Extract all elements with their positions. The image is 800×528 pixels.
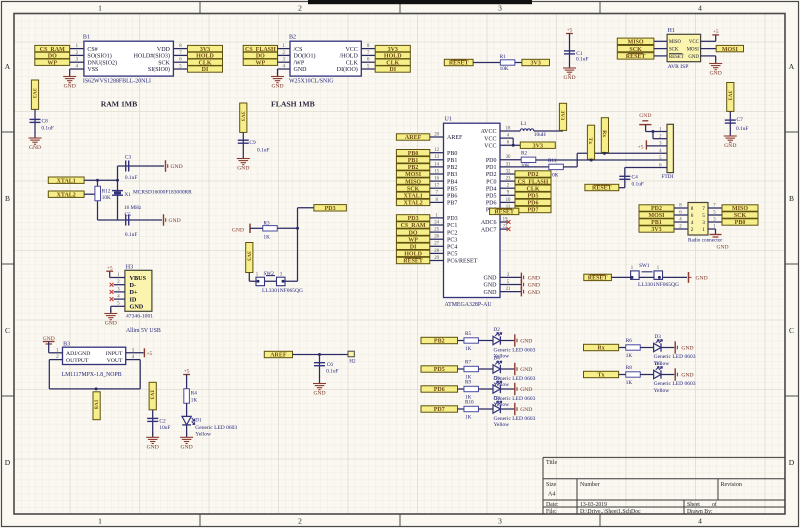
svg-text:VCC: VCC	[689, 40, 699, 45]
svg-text:6: 6	[691, 213, 694, 219]
svg-text:ADJ/GND: ADJ/GND	[66, 351, 90, 357]
svg-text:RESET: RESET	[588, 276, 608, 282]
svg-text:D:\Drive..\Sheet1.SchDoc: D:\Drive..\Sheet1.SchDoc	[580, 509, 641, 515]
svg-text:16: 16	[434, 177, 439, 182]
svg-text:10: 10	[506, 198, 511, 203]
svg-text:C: C	[5, 326, 10, 335]
svg-text:1: 1	[702, 227, 705, 233]
svg-text:27: 27	[434, 242, 439, 247]
svg-text:2: 2	[691, 227, 694, 233]
svg-text:R10: R10	[465, 399, 474, 405]
svg-text:SCK: SCK	[158, 60, 170, 66]
svg-text:Generic LED 0603: Generic LED 0603	[494, 347, 536, 353]
svg-text:VSS: VSS	[87, 67, 98, 73]
svg-text:Date:: Date:	[546, 502, 559, 508]
svg-text:A: A	[5, 62, 11, 71]
svg-text:C: C	[789, 326, 794, 335]
svg-text:VBUS: VBUS	[130, 275, 147, 282]
svg-text:SI(SIO0): SI(SIO0)	[148, 66, 170, 73]
svg-text:Radio connector: Radio connector	[688, 238, 722, 244]
svg-text:ATMEGA328P-AU: ATMEGA328P-AU	[445, 302, 493, 308]
svg-text:+5: +5	[713, 29, 719, 35]
svg-text:RESET: RESET	[626, 54, 646, 60]
svg-text:1K: 1K	[626, 353, 633, 359]
svg-text:D: D	[789, 458, 795, 467]
svg-text:Number: Number	[580, 482, 600, 488]
svg-text:SW1: SW1	[639, 263, 650, 269]
svg-text:IS62WVS1288FBLL-20NLI: IS62WVS1288FBLL-20NLI	[83, 79, 151, 85]
svg-text:+5: +5	[567, 28, 573, 34]
svg-text:PD3: PD3	[408, 216, 419, 222]
svg-text:MCRSD16000F183000RR: MCRSD16000F183000RR	[133, 190, 192, 196]
svg-text:PC0: PC0	[486, 179, 496, 185]
svg-text:1K: 1K	[626, 380, 633, 386]
svg-text:20: 20	[434, 132, 439, 137]
svg-text:OUTPUT: OUTPUT	[66, 358, 89, 364]
svg-text:GND: GND	[724, 143, 736, 149]
svg-text:GND: GND	[528, 276, 540, 282]
svg-text:DI: DI	[202, 67, 209, 73]
svg-text:10K: 10K	[500, 66, 509, 72]
svg-text:SCK: SCK	[669, 48, 679, 53]
svg-text:GND: GND	[688, 55, 699, 60]
svg-text:VDD: VDD	[157, 47, 171, 53]
svg-text:R3: R3	[264, 221, 270, 227]
svg-text:GND: GND	[520, 367, 532, 373]
svg-text:SCK: SCK	[629, 47, 642, 53]
svg-text:DI: DI	[410, 245, 417, 251]
svg-text:R12: R12	[102, 189, 111, 195]
svg-text:R5: R5	[465, 331, 471, 337]
svg-text:PD2: PD2	[486, 172, 497, 178]
svg-text:12: 12	[434, 148, 439, 153]
svg-text:X1: X1	[125, 192, 132, 198]
svg-text:7: 7	[702, 206, 705, 212]
svg-text:RAM 1MB: RAM 1MB	[101, 99, 138, 108]
svg-text:INPUT: INPUT	[106, 351, 123, 357]
svg-text:Generic LED 0603: Generic LED 0603	[654, 381, 696, 387]
svg-text:PB3: PB3	[447, 172, 457, 178]
svg-text:MOSI: MOSI	[687, 48, 699, 53]
svg-text:PD4: PD4	[486, 186, 497, 192]
svg-text:CLK: CLK	[346, 60, 359, 66]
svg-text:10K: 10K	[521, 163, 530, 169]
svg-text:Size: Size	[546, 482, 557, 488]
svg-text:Tx: Tx	[598, 373, 605, 379]
svg-text:/HOLD: /HOLD	[339, 54, 358, 60]
svg-text:3V3: 3V3	[245, 251, 251, 261]
svg-text:R1: R1	[500, 54, 506, 60]
svg-text:H3: H3	[126, 264, 133, 270]
svg-text:B3: B3	[63, 342, 70, 348]
svg-text:GND: GND	[147, 445, 159, 451]
svg-text:C3: C3	[125, 155, 132, 161]
svg-text:PB4: PB4	[447, 179, 457, 185]
svg-text:PC6/RESET: PC6/RESET	[447, 259, 478, 265]
svg-text:+5: +5	[147, 351, 153, 357]
svg-text:XTAL1: XTAL1	[57, 178, 76, 184]
svg-text:R6: R6	[626, 338, 632, 344]
svg-text:GND: GND	[232, 228, 244, 234]
svg-text:8: 8	[691, 206, 694, 212]
svg-text:DI(IOO): DI(IOO)	[337, 66, 358, 73]
svg-text:GND: GND	[237, 166, 249, 172]
svg-text:1V8: 1V8	[93, 399, 99, 409]
svg-text:LM1117MPX-1.8_NOPB: LM1117MPX-1.8_NOPB	[62, 372, 122, 378]
svg-text:0.1uF: 0.1uF	[41, 125, 53, 131]
svg-text:15: 15	[434, 169, 439, 174]
svg-text:Generic LED 0603: Generic LED 0603	[195, 425, 237, 431]
svg-text:PD6: PD6	[486, 201, 497, 207]
svg-text:XTAL1: XTAL1	[403, 194, 422, 200]
svg-text:AVCC: AVCC	[481, 129, 497, 135]
svg-text:Yellow: Yellow	[195, 432, 211, 438]
svg-text:1: 1	[98, 517, 102, 526]
svg-text:PB2: PB2	[408, 165, 419, 171]
svg-text:0.1uF: 0.1uF	[257, 148, 269, 154]
svg-text:+5: +5	[184, 369, 190, 375]
svg-text:3V3: 3V3	[533, 143, 543, 149]
svg-text:PB1: PB1	[447, 158, 457, 164]
svg-text:AREF: AREF	[270, 353, 287, 359]
svg-text:MOSI: MOSI	[405, 172, 422, 178]
svg-text:Tx: Tx	[587, 137, 593, 144]
svg-text:PD2: PD2	[528, 172, 539, 178]
svg-text:3V3: 3V3	[239, 111, 245, 121]
svg-text:LL3301NF065QG: LL3301NF065QG	[638, 282, 679, 288]
svg-text:13: 13	[434, 155, 439, 160]
svg-text:DO: DO	[409, 230, 418, 236]
svg-text:D: D	[5, 458, 11, 467]
svg-text:RESET: RESET	[449, 61, 469, 67]
svg-text:PC3: PC3	[447, 237, 457, 243]
svg-text:HOLD#(SIO3): HOLD#(SIO3)	[134, 53, 170, 60]
svg-text:0.1uF: 0.1uF	[125, 175, 137, 181]
svg-text:/WP: /WP	[294, 60, 305, 66]
svg-text:GND: GND	[105, 321, 117, 327]
svg-text:SW2: SW2	[264, 271, 275, 277]
svg-text:Yellow: Yellow	[494, 422, 510, 428]
svg-text:GND: GND	[520, 387, 532, 393]
svg-text:Rx: Rx	[601, 130, 607, 137]
svg-text:18: 18	[506, 126, 511, 131]
svg-text:GND: GND	[484, 290, 498, 296]
svg-text:5: 5	[702, 213, 705, 219]
svg-text:VCC: VCC	[484, 143, 496, 149]
svg-text:PB6: PB6	[447, 194, 457, 200]
svg-text:HOLD: HOLD	[404, 252, 422, 258]
svg-text:CS_FLASH: CS_FLASH	[518, 179, 549, 185]
svg-text:2: 2	[298, 4, 302, 13]
svg-text:D6: D6	[494, 376, 501, 382]
svg-text:Title: Title	[546, 460, 557, 466]
svg-text:24: 24	[434, 220, 439, 225]
svg-text:WP: WP	[408, 237, 418, 243]
svg-text:3V3: 3V3	[31, 88, 37, 98]
svg-text:PD6: PD6	[434, 387, 445, 393]
svg-text:PB5: PB5	[447, 186, 457, 192]
svg-text:GND: GND	[313, 391, 325, 397]
svg-text:GND: GND	[710, 71, 722, 77]
svg-text:GND: GND	[520, 339, 532, 345]
svg-text:1: 1	[98, 4, 102, 13]
svg-text:C5: C5	[125, 212, 132, 218]
svg-text:RESET: RESET	[592, 186, 612, 192]
svg-text:B2: B2	[289, 35, 296, 41]
svg-text:MISO: MISO	[405, 179, 421, 185]
svg-text:Yellow: Yellow	[654, 388, 670, 394]
svg-text:D3: D3	[655, 334, 662, 340]
svg-text:GND: GND	[696, 276, 708, 282]
svg-text:GND: GND	[563, 75, 575, 81]
svg-text:PD5: PD5	[528, 194, 539, 200]
svg-text:C7: C7	[737, 117, 744, 123]
svg-text:U1: U1	[445, 117, 452, 123]
svg-text:CS#: CS#	[87, 47, 97, 53]
svg-text:PD7: PD7	[528, 208, 539, 214]
svg-text:B1: B1	[83, 35, 90, 41]
svg-text:XTAL2: XTAL2	[403, 201, 422, 207]
svg-text:D2: D2	[494, 327, 501, 333]
svg-text:D+: D+	[130, 289, 138, 296]
svg-text:GND: GND	[681, 346, 693, 352]
svg-text:R8: R8	[626, 365, 632, 371]
svg-text:D-: D-	[130, 282, 137, 289]
svg-text:PD5: PD5	[434, 367, 445, 373]
svg-text:GND: GND	[169, 218, 181, 224]
svg-text:WP: WP	[256, 60, 266, 66]
svg-text:XTAL2: XTAL2	[57, 192, 76, 198]
svg-text:25: 25	[434, 228, 439, 233]
svg-text:10uH: 10uH	[534, 132, 546, 138]
svg-text:ADC6: ADC6	[481, 220, 497, 226]
svg-text:AREF: AREF	[405, 135, 422, 141]
svg-text:1K: 1K	[191, 397, 198, 403]
svg-text:PC4: PC4	[447, 245, 457, 251]
svg-text:C4: C4	[632, 175, 639, 181]
svg-text:13-03-2019: 13-03-2019	[580, 502, 607, 508]
svg-text:4: 4	[698, 4, 702, 13]
svg-text:A4: A4	[548, 492, 555, 498]
svg-text:1K: 1K	[465, 414, 472, 420]
svg-text:MISO: MISO	[669, 40, 682, 45]
svg-text:FLASH 1MB: FLASH 1MB	[271, 100, 315, 109]
svg-text:C8: C8	[42, 119, 49, 125]
svg-text:Generic LED 0603: Generic LED 0603	[654, 354, 696, 360]
svg-text:GND: GND	[294, 67, 308, 73]
svg-text:VOUT: VOUT	[107, 358, 123, 364]
svg-text:B: B	[5, 194, 10, 203]
svg-text:0.1uF: 0.1uF	[576, 57, 588, 63]
svg-text:Sheet: Sheet	[687, 502, 700, 508]
svg-text:Allim 5V USB: Allim 5V USB	[126, 328, 161, 334]
svg-text:GND: GND	[171, 164, 183, 170]
svg-text:23: 23	[506, 177, 511, 182]
svg-text:16 MHz: 16 MHz	[124, 205, 142, 211]
svg-text:22: 22	[503, 225, 508, 230]
svg-text:PD1: PD1	[486, 165, 497, 171]
svg-text:W25X10CL/SNIG: W25X10CL/SNIG	[289, 79, 334, 85]
svg-text:PD0: PD0	[486, 158, 497, 164]
svg-text:28: 28	[434, 249, 439, 254]
svg-text:B: B	[789, 194, 794, 203]
svg-text:29: 29	[434, 256, 439, 261]
svg-text:3: 3	[498, 4, 502, 13]
svg-text:Generic LED 0603: Generic LED 0603	[494, 416, 536, 422]
svg-text:Rx: Rx	[597, 346, 604, 352]
svg-text:PB1: PB1	[408, 158, 419, 164]
svg-text:PB2: PB2	[447, 165, 457, 171]
svg-text:PC2: PC2	[447, 230, 457, 236]
svg-text:D4: D4	[494, 356, 501, 362]
svg-text:Drawn By:: Drawn By:	[687, 509, 713, 515]
svg-text:C6: C6	[327, 362, 334, 368]
svg-text:0.1uF: 0.1uF	[326, 369, 338, 375]
svg-text:4: 4	[698, 517, 702, 526]
svg-text:1K: 1K	[465, 346, 472, 352]
svg-text:R9: R9	[465, 379, 471, 385]
svg-text:WP: WP	[47, 60, 57, 66]
svg-text:C2: C2	[159, 418, 166, 424]
svg-text:0.1uF: 0.1uF	[736, 126, 748, 132]
svg-text:GND: GND	[64, 84, 76, 90]
svg-text:AVR ISP: AVR ISP	[668, 64, 689, 70]
svg-text:26: 26	[434, 235, 439, 240]
svg-text:47346-1001: 47346-1001	[126, 313, 153, 319]
svg-text:GND: GND	[271, 84, 283, 90]
svg-text:LL3301NF065QG: LL3301NF065QG	[262, 288, 303, 294]
svg-text:3: 3	[498, 517, 502, 526]
svg-text:PB0: PB0	[447, 151, 457, 157]
svg-text:R4: R4	[191, 390, 197, 396]
svg-text:GND: GND	[181, 445, 193, 451]
svg-text:A: A	[789, 62, 795, 71]
svg-text:MOSI: MOSI	[722, 47, 739, 53]
svg-text:PD5: PD5	[486, 194, 497, 200]
svg-text:PB0: PB0	[408, 151, 419, 157]
svg-text:PD7: PD7	[434, 407, 445, 413]
svg-text:30: 30	[506, 155, 511, 160]
svg-text:3V3: 3V3	[726, 91, 732, 101]
svg-text:MISO: MISO	[628, 40, 644, 46]
svg-text:PB7: PB7	[447, 201, 457, 207]
svg-text:SO(SIO1): SO(SIO1)	[87, 53, 111, 60]
svg-text:2: 2	[298, 517, 302, 526]
svg-text:R7: R7	[465, 359, 471, 365]
svg-text:PD3: PD3	[325, 206, 336, 212]
svg-text:D5: D5	[655, 361, 662, 367]
svg-text:31: 31	[506, 162, 511, 167]
svg-text:DO(IO1): DO(IO1)	[294, 53, 316, 60]
svg-text:10K: 10K	[102, 195, 111, 201]
svg-text:L1: L1	[521, 121, 527, 127]
svg-text:0.1uF: 0.1uF	[125, 232, 137, 238]
svg-text:3V3: 3V3	[651, 227, 661, 233]
svg-text:3V3: 3V3	[531, 61, 541, 67]
svg-text:ADC7: ADC7	[481, 227, 497, 233]
svg-text:File:: File:	[546, 509, 557, 515]
svg-text:GND: GND	[130, 304, 144, 311]
svg-text:17: 17	[434, 184, 439, 189]
svg-text:PD6: PD6	[528, 201, 539, 207]
svg-text:CLK: CLK	[526, 186, 539, 192]
svg-text:AREF: AREF	[447, 135, 463, 141]
svg-text:FTDI: FTDI	[661, 174, 673, 180]
svg-text:0.1uF: 0.1uF	[632, 182, 644, 188]
svg-text:D8: D8	[494, 396, 501, 402]
svg-text:1K: 1K	[264, 235, 271, 241]
svg-text:VCC: VCC	[484, 136, 496, 142]
svg-text:C9: C9	[249, 140, 256, 146]
svg-text:CS_RAM: CS_RAM	[401, 223, 426, 229]
svg-text:14: 14	[434, 162, 439, 167]
svg-text:+5: +5	[107, 265, 113, 271]
svg-text:R2: R2	[521, 151, 527, 157]
svg-text:RESET: RESET	[403, 259, 423, 265]
svg-text:GND: GND	[484, 276, 498, 282]
svg-text:3: 3	[702, 220, 705, 226]
svg-text:PB0: PB0	[735, 220, 746, 226]
svg-text:GND: GND	[520, 407, 532, 413]
svg-text:of: of	[712, 501, 717, 508]
svg-text:GND: GND	[681, 373, 693, 379]
svg-text:PD3: PD3	[447, 216, 458, 222]
svg-text:GND: GND	[528, 283, 540, 289]
svg-text:GND: GND	[484, 283, 498, 289]
svg-text:19: 19	[503, 217, 508, 222]
svg-text:H1: H1	[668, 28, 675, 34]
svg-text:H2: H2	[349, 359, 356, 365]
svg-text:GND: GND	[639, 113, 651, 119]
svg-text:RESET: RESET	[669, 55, 684, 60]
svg-text:RESET: RESET	[494, 210, 514, 216]
svg-text:PC5: PC5	[447, 252, 457, 258]
svg-text:21: 21	[506, 287, 511, 292]
svg-text:10uF: 10uF	[159, 425, 170, 431]
svg-text:ID: ID	[130, 296, 137, 303]
svg-text:GND: GND	[528, 290, 540, 296]
svg-text:PB2: PB2	[434, 339, 445, 345]
svg-text:3V3: 3V3	[559, 110, 565, 120]
svg-text:+5: +5	[638, 144, 644, 150]
svg-text:D1: D1	[195, 417, 202, 423]
svg-text:4: 4	[691, 220, 694, 226]
svg-text:GND: GND	[29, 145, 41, 151]
svg-text:GND: GND	[716, 245, 728, 251]
svg-text:32: 32	[506, 169, 511, 174]
svg-text:SCK: SCK	[407, 186, 420, 192]
svg-text:DI: DI	[389, 67, 396, 73]
svg-text:3V3: 3V3	[149, 390, 155, 400]
svg-text:/CS: /CS	[294, 47, 303, 53]
svg-text:DNU(SIO2): DNU(SIO2)	[87, 59, 117, 66]
svg-text:Revision: Revision	[721, 482, 742, 488]
svg-text:PC1: PC1	[447, 223, 457, 229]
svg-text:VCC: VCC	[345, 47, 357, 53]
svg-text:R11: R11	[548, 158, 557, 164]
